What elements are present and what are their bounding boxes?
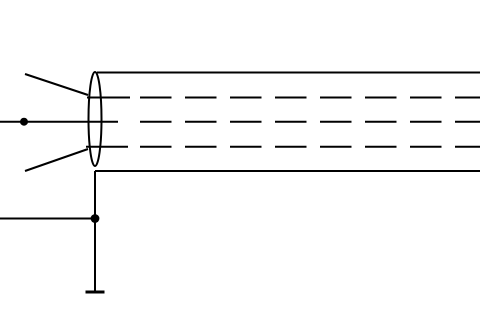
node: middle conductor terminal junction xyxy=(20,118,28,126)
wire: top conductor fan-out diagonal xyxy=(25,74,88,95)
wire: bottom conductor (dashed, inside shield) xyxy=(140,146,480,148)
wire: bottom conductor lead-in segment xyxy=(86,146,128,148)
ground terminal bar xyxy=(86,291,105,294)
wire: shield drop to ground xyxy=(94,171,96,292)
wire: middle conductor solid segment to left edge xyxy=(0,121,118,123)
shield envelope ellipse (cable end cap) xyxy=(89,72,102,166)
wire: shield bottom edge xyxy=(95,170,480,172)
wire: top conductor lead-in segment xyxy=(87,97,130,99)
wire: bottom conductor fan-out diagonal xyxy=(25,149,88,171)
wire: shield top edge xyxy=(97,72,480,74)
wire: shield ground branch horizontal xyxy=(0,218,95,220)
wire: middle conductor (dashed, inside shield) xyxy=(140,121,480,123)
wire: top conductor (dashed, inside shield) xyxy=(140,97,480,99)
node: shield ground junction xyxy=(91,214,100,223)
